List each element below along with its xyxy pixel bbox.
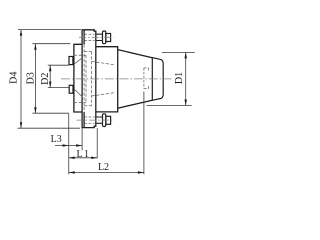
drum web diagonal bottom xyxy=(74,89,82,97)
dimension L3 line xyxy=(55,145,82,147)
bottom stud nut xyxy=(106,116,111,124)
extension line x97.2 xyxy=(96,128,98,159)
stud hole hidden lines top xyxy=(85,34,95,40)
flange plate outline xyxy=(82,30,96,128)
hidden vertical x91.6 xyxy=(91,52,93,106)
hub body xyxy=(96,47,118,112)
pilot box bottom xyxy=(69,85,73,93)
main centerline xyxy=(61,78,172,80)
svg-text:D3: D3 xyxy=(26,72,37,84)
hidden line horizontal top xyxy=(74,54,86,56)
cotter pin hidden detail xyxy=(144,68,149,89)
pilot box top xyxy=(69,57,73,65)
cone bottom slant xyxy=(118,100,153,108)
bottom stud centerline xyxy=(77,119,114,121)
cone end edge xyxy=(151,58,153,101)
top stud washer xyxy=(103,31,106,44)
bottom stud washer xyxy=(103,114,106,127)
L3 arrow right xyxy=(76,144,82,147)
bore taper hidden bottom xyxy=(92,93,115,96)
stud hole hidden lines bottom xyxy=(85,117,95,123)
D3 arrows xyxy=(34,44,37,114)
cone top slant xyxy=(118,50,153,58)
hidden vertical x86 xyxy=(85,55,87,102)
svg-text:L1: L1 xyxy=(76,149,90,160)
drum web diagonal top xyxy=(74,58,82,64)
svg-text:D2: D2 xyxy=(40,73,51,85)
svg-text:L2: L2 xyxy=(98,162,109,173)
D2 arrows xyxy=(49,65,52,87)
dimension D3 line xyxy=(32,44,70,114)
L3 arrow left xyxy=(63,144,69,147)
hidden line horizontal bottom xyxy=(74,102,86,104)
hidden line horizontal bottom2 xyxy=(84,105,92,107)
bore taper hidden top xyxy=(92,61,115,64)
top stud centerline xyxy=(79,36,114,38)
dimension D2 line xyxy=(48,65,69,87)
dimension D4 line xyxy=(18,30,82,129)
L1 arrows xyxy=(69,157,97,160)
D1 arrows xyxy=(184,52,187,105)
hidden vertical x84 (flange face behind drum) xyxy=(83,44,85,112)
L2 arrows xyxy=(69,171,144,174)
extension line x143.9 xyxy=(143,92,145,175)
extension line left reference xyxy=(68,113,70,174)
top stud nut xyxy=(106,34,111,42)
dimension L2 line xyxy=(69,172,144,174)
brake drum plate xyxy=(74,44,82,112)
hub cap xyxy=(152,58,163,101)
dimension L1 line xyxy=(69,157,97,159)
svg-text:D1: D1 xyxy=(174,72,185,84)
dimension D1 line xyxy=(147,52,195,105)
svg-text:L3: L3 xyxy=(51,134,62,145)
hidden line horizontal top2 xyxy=(84,51,92,53)
svg-text:D4: D4 xyxy=(9,72,20,84)
top wheel stud shaft xyxy=(96,34,103,40)
bottom wheel stud shaft xyxy=(96,117,103,123)
extension line x82 xyxy=(81,128,83,150)
D4 arrows xyxy=(20,30,23,129)
